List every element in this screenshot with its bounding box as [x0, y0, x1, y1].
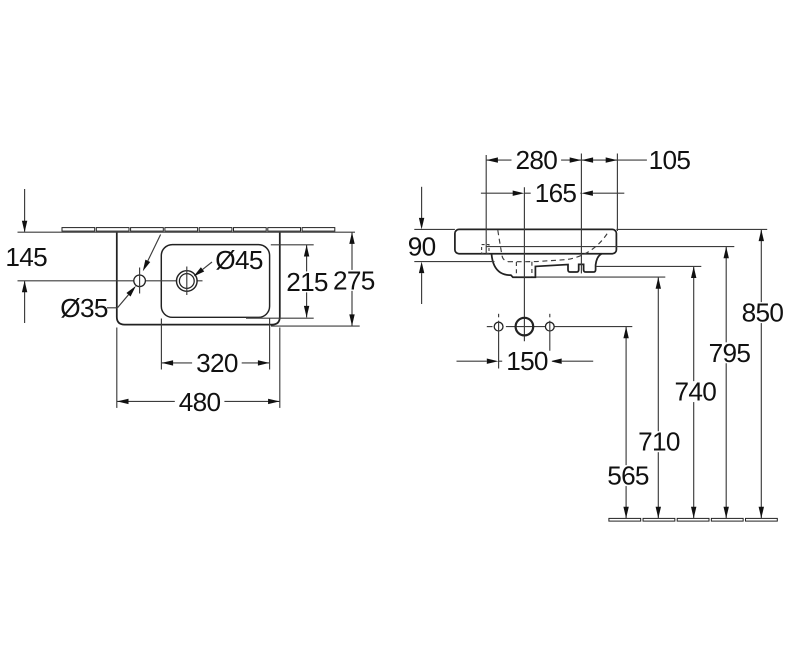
svg-text:105: 105 [649, 145, 691, 175]
wire leader from top edge to small hole [143, 235, 161, 272]
dimension 850 line [738, 230, 788, 519]
svg-text:145: 145 [5, 242, 47, 272]
dimension 165 line [481, 178, 624, 208]
dimension 795 line [705, 247, 755, 519]
node basin outer outline (plan view) [117, 232, 280, 324]
wire drain stub reference line 710 [536, 276, 665, 278]
node hidden fixing hole dashed square [482, 245, 489, 254]
wire extension line 280 right [580, 154, 582, 274]
label O45 with leader [194, 245, 263, 276]
wire bowl inner bottom reference line 90 [414, 261, 494, 263]
node faucet hole circle (45mm) [177, 267, 198, 296]
svg-text:90: 90 [408, 232, 436, 262]
wire horizontal centerline through tap holes [18, 280, 203, 282]
dimension 150 line [457, 346, 594, 376]
node fixing hole circle right [545, 314, 554, 369]
svg-text:150: 150 [506, 346, 548, 376]
svg-text:480: 480 [179, 387, 221, 417]
node trap drain circle [516, 318, 534, 336]
ground floor segmented line [609, 518, 777, 521]
dimension 710 line [634, 277, 684, 518]
wire hidden bowl bottom and right wall dashed [508, 232, 608, 262]
dimension 105 line [581, 145, 690, 175]
node basin slab front outline [455, 229, 617, 253]
dimension 320 line [161, 319, 269, 379]
dimension 145 line [5, 189, 47, 323]
svg-text:740: 740 [675, 377, 717, 407]
wire shelf top segmented edge (plan view) [62, 228, 335, 232]
dimension 280 line [486, 145, 581, 175]
node inner bowl outline (plan view) [161, 245, 269, 318]
svg-text:850: 850 [742, 298, 784, 328]
wire trap height reference line 565 [487, 326, 633, 328]
dimension 90 line [408, 187, 436, 304]
node fixing hole circle left [494, 314, 503, 369]
wire extension line 105 right [616, 154, 618, 232]
svg-text:165: 165 [535, 178, 577, 208]
dimension 275 line [271, 232, 379, 326]
wire hidden drain pipe dashed [516, 262, 532, 277]
svg-text:Ø35: Ø35 [60, 293, 108, 323]
node tap hole circle small (35mm) [134, 268, 146, 294]
dimension 565 line [603, 327, 653, 519]
svg-text:320: 320 [196, 348, 238, 378]
svg-text:795: 795 [709, 338, 751, 368]
svg-text:280: 280 [516, 145, 558, 175]
node hanging bowl underside contour [492, 254, 602, 278]
wire underside reference line 740 [596, 265, 701, 267]
wire fixing hole height reference line 795 [486, 246, 734, 248]
wire top wall line (plan view) [18, 231, 356, 233]
label O35 with leader [60, 286, 136, 323]
svg-text:215: 215 [286, 267, 328, 297]
dimension 215 line [246, 245, 332, 318]
svg-text:Ø45: Ø45 [215, 245, 263, 275]
svg-text:275: 275 [333, 265, 375, 295]
dimension 480 line [117, 328, 280, 417]
wire faucet vertical centerline [523, 187, 525, 341]
wire extension line 280 left [485, 155, 487, 254]
wire basin top reference line [414, 228, 767, 230]
dimension 740 line [671, 267, 721, 519]
svg-text:565: 565 [607, 461, 649, 491]
wire hidden bowl left wall dashed [498, 230, 508, 261]
svg-text:710: 710 [638, 427, 680, 457]
